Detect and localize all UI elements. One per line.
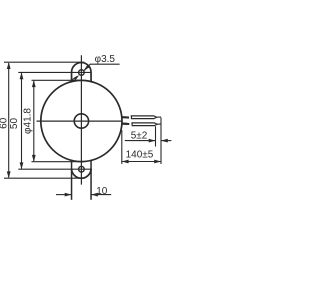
top ear hole horizontal center line — [66, 71, 91, 73]
dim 41.8 extension line top — [32, 79, 82, 81]
bottom lead wire bare tip — [157, 123, 161, 125]
svg-text:50: 50 — [9, 118, 20, 130]
dim 10 dimension line right part — [91, 194, 111, 196]
wire root stub top — [122, 116, 129, 119]
horizontal center line — [37, 120, 123, 122]
dim 5±2 left extension line — [155, 126, 157, 146]
vertical center line — [80, 55, 82, 184]
top lead wire bare tip — [157, 116, 162, 118]
bottom ear hole — [79, 166, 85, 172]
svg-text:10: 10 — [96, 186, 108, 197]
top mounting ear — [72, 63, 92, 82]
dim 50 extension line bottom — [18, 168, 66, 170]
svg-text:φ3.5: φ3.5 — [95, 54, 116, 65]
dim 140±5 arrow left — [122, 160, 129, 164]
dim 41.8 arrow up — [32, 80, 36, 87]
center hole — [74, 114, 88, 128]
dim 60 extension line bottom — [4, 177, 85, 179]
svg-text:140±5: 140±5 — [126, 150, 154, 161]
dim 60 extension line top — [4, 61, 84, 63]
wire root stub bottom — [122, 122, 129, 125]
dim 5±2 right extension line (wire tip) — [160, 118, 162, 165]
dim 140±5 arrow right — [154, 160, 161, 164]
bottom ear right side / dim 10 extension — [90, 160, 92, 199]
dim 3.5 leader lower-left arrow — [74, 75, 80, 81]
dim 41.8 arrow down — [32, 155, 36, 162]
dim 10 dimension line left part — [56, 194, 72, 196]
top ear hole (φ3.5) — [79, 70, 85, 76]
dim 41.8 extension line bottom — [32, 161, 85, 163]
dim 50 extension line top — [18, 71, 66, 73]
dim 5±2 dimension line left part — [125, 140, 156, 142]
dim 140±5 left extension line (circle edge) — [121, 130, 123, 164]
dim 5±2 arrow pointing right — [149, 139, 156, 143]
dim 3.5 leader lower-left segment — [71, 76, 77, 80]
dim 140±5 dimension line — [122, 161, 161, 163]
main circle (buzzer body, φ41.8) — [41, 80, 122, 161]
dim 3.5 leader upper-right arrow — [84, 65, 90, 71]
dim 50 arrow down — [20, 162, 24, 169]
dim 10 arrow pointing right — [65, 193, 72, 197]
svg-text:60: 60 — [0, 117, 9, 129]
svg-text:5±2: 5±2 — [131, 130, 148, 141]
dim 50 arrow up — [20, 72, 24, 79]
dim 60 dimension line — [8, 63, 10, 177]
dim 3.5 leader upper-right segment — [84, 64, 90, 70]
top lead wire body — [131, 116, 156, 119]
dim 60 arrow up — [7, 62, 11, 69]
dim 10 arrow pointing left — [91, 193, 98, 197]
dim 5±2 dimension line right part — [161, 140, 171, 142]
dim 60 arrow down — [7, 171, 11, 178]
bottom ear hole horizontal center line — [66, 168, 91, 170]
svg-text:φ41.8: φ41.8 — [22, 108, 33, 134]
dim 3.5 leader underline — [90, 63, 120, 65]
bottom mounting ear — [72, 169, 92, 179]
dim 5±2 arrow pointing left — [161, 139, 168, 143]
dim 41.8 dimension line — [33, 81, 35, 161]
bottom lead wire body — [132, 123, 157, 126]
dim 50 dimension line — [21, 73, 23, 169]
bottom ear left side / dim 10 extension — [71, 160, 73, 200]
